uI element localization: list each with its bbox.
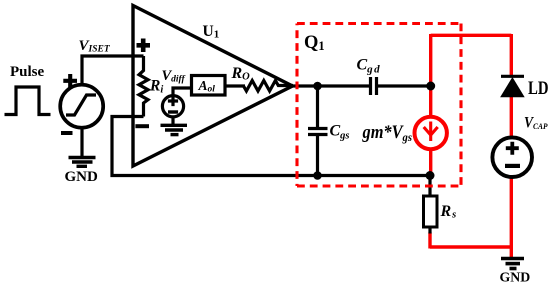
svg-text:Pulse: Pulse [10, 64, 45, 80]
svg-text:GND: GND [65, 169, 99, 185]
svg-text:GND: GND [500, 270, 531, 285]
svg-text:LD: LD [528, 78, 549, 99]
